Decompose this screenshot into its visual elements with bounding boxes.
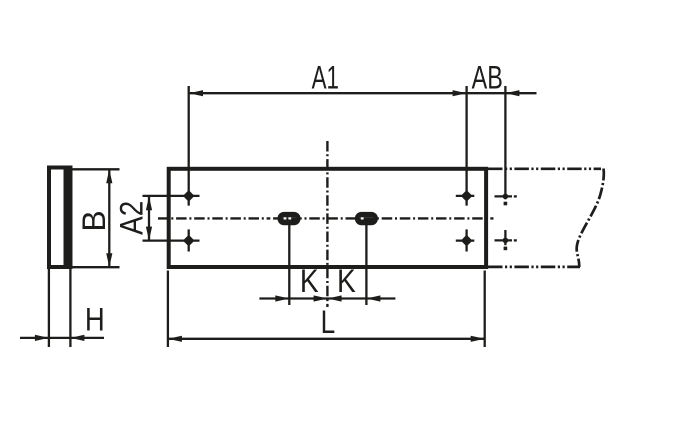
side view filled strip (right layer) (64, 166, 73, 270)
slot centerline overdraw (270, 217, 390, 219)
svg-text:A1: A1 (312, 59, 339, 95)
L extension line left (167, 271, 169, 348)
svg-text:K: K (300, 265, 319, 300)
slot left (278, 212, 301, 225)
hole bottom-left diamond (183, 235, 195, 247)
B arrow down (106, 253, 112, 267)
hole mark top-right cross (456, 195, 475, 197)
slot left extension line (288, 225, 290, 305)
H dimension line (20, 337, 104, 339)
adjacent hole center top (503, 194, 509, 200)
K dimension line (259, 297, 395, 299)
vertical centerline (326, 141, 328, 307)
slot right (355, 212, 378, 225)
H arrow left-pointing (70, 335, 84, 341)
hole mark bottom-left cross (143, 239, 200, 241)
svg-text:K: K (337, 265, 356, 300)
phantom continuation top line (488, 167, 601, 170)
svg-text:A2: A2 (115, 201, 150, 235)
B extension line top (72, 168, 119, 170)
L extension line right (484, 271, 486, 348)
slot right extension line (365, 225, 367, 305)
hole bottom-right diamond (461, 235, 473, 247)
svg-text:H: H (85, 303, 105, 338)
K arrow 4 (366, 295, 380, 301)
phantom continuation bottom line (488, 266, 580, 269)
AB arrow outer (505, 90, 519, 96)
A2 arrow down (146, 227, 152, 241)
B dimension line (108, 169, 110, 267)
A1/AB dimension line (189, 92, 537, 94)
phantom break wavy line (577, 169, 604, 268)
hole top-left diamond (183, 190, 195, 202)
hole mark bottom-right cross (456, 239, 475, 241)
K arrow 3 (328, 295, 342, 301)
AB extension line (504, 86, 506, 199)
A2 dimension line (148, 196, 150, 240)
svg-text:AB: AB (472, 60, 503, 95)
svg-text:L: L (321, 306, 336, 341)
L arrow left (168, 336, 182, 342)
B extension line bottom (72, 266, 119, 268)
adjacent hole center bottom (503, 238, 509, 244)
K arrow 1 (275, 295, 289, 301)
hole top-right diamond (461, 190, 473, 202)
horizontal centerline (158, 217, 270, 219)
A2 arrow up (146, 196, 152, 210)
A1 arrow left (189, 90, 203, 96)
H arrow right-pointing (35, 335, 49, 341)
H extension line left (48, 269, 50, 347)
A1/AB arrow at right hole (453, 90, 467, 96)
svg-text:B: B (76, 210, 112, 231)
L arrow right (471, 336, 485, 342)
H extension line right (69, 269, 71, 347)
side view outer rectangle (49, 168, 70, 268)
main plate rectangle (169, 169, 486, 267)
B arrow up (106, 169, 112, 183)
hole mark top-left cross (143, 195, 200, 197)
L dimension line (168, 338, 485, 340)
K arrow 2 (314, 295, 328, 301)
